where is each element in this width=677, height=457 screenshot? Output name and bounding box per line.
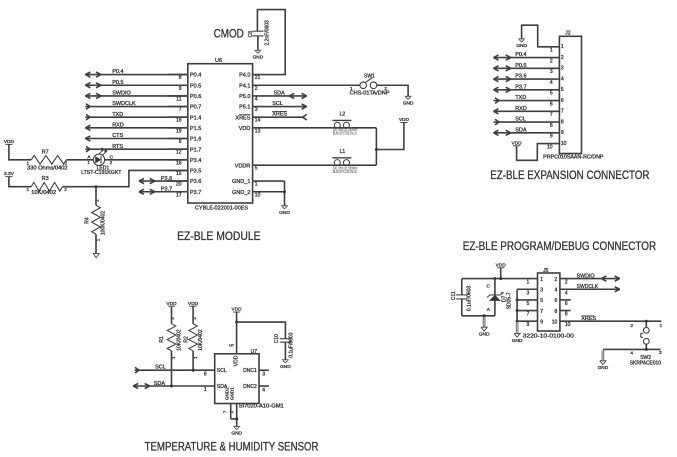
- resistor R4 100K/0402: [85, 187, 107, 254]
- svg-text:XRES: XRES: [272, 111, 287, 117]
- svg-text:SDA: SDA: [515, 127, 527, 133]
- svg-text:5: 5: [540, 298, 543, 304]
- svg-text:3: 3: [659, 350, 662, 356]
- svg-text:2: 2: [110, 160, 113, 165]
- wire VDD rail to J5 pin 1: [462, 278, 538, 280]
- U7 pin labels: [217, 355, 257, 400]
- wire net P3.6 stub: [139, 176, 188, 184]
- ground (J5 bus): [512, 323, 523, 344]
- U6 pin 13 VDD: [239, 126, 261, 134]
- svg-text:U7: U7: [251, 349, 258, 355]
- svg-text:P5.1: P5.1: [239, 105, 250, 111]
- connector J2 PRPC010SAAN-RC/DNP: [543, 31, 604, 161]
- wire net SDA from U6: [253, 90, 307, 98]
- svg-text:TXD: TXD: [112, 112, 123, 118]
- J5 pins 1/2: [527, 277, 568, 286]
- svg-text:2: 2: [64, 187, 67, 192]
- svg-text:SWDIO: SWDIO: [577, 273, 596, 279]
- wire net P0.5 to U6: [85, 80, 187, 88]
- svg-text:GND: GND: [512, 338, 523, 344]
- svg-text:3: 3: [255, 107, 258, 113]
- wire net TXD to U6: [85, 112, 187, 120]
- svg-text:P4.0: P4.0: [239, 73, 250, 79]
- power VDD (left): [4, 139, 15, 145]
- node GND junction: [283, 190, 286, 193]
- svg-text:P3.7: P3.7: [190, 190, 201, 196]
- ground (SW2): [598, 350, 609, 371]
- svg-text:16: 16: [176, 160, 182, 166]
- ground (U7): [231, 427, 242, 437]
- svg-text:4: 4: [630, 351, 633, 357]
- wire J2 pin 1 to ground: [522, 25, 560, 47]
- svg-text:3: 3: [262, 372, 265, 378]
- power VDD (R2): [188, 301, 199, 307]
- svg-text:10: 10: [547, 144, 553, 150]
- svg-text:GND: GND: [479, 332, 490, 338]
- svg-text:J5: J5: [543, 268, 549, 274]
- svg-text:20: 20: [176, 182, 182, 188]
- svg-text:P1.7: P1.7: [190, 147, 201, 153]
- svg-text:9: 9: [550, 134, 553, 140]
- svg-text:2.2nF/0603: 2.2nF/0603: [265, 20, 271, 46]
- node J5 bus junction: [516, 309, 519, 312]
- svg-text:8: 8: [565, 312, 568, 318]
- svg-text:P3.6: P3.6: [190, 179, 201, 185]
- svg-text:SCL: SCL: [272, 101, 283, 107]
- J5 pins 5/6: [527, 298, 568, 307]
- svg-text:RXD: RXD: [112, 122, 124, 128]
- title TEMPERATURE & HUMIDITY SENSOR: [145, 440, 319, 454]
- wire junction to VDD: [376, 123, 404, 150]
- wire SW2 bottom: [603, 348, 661, 351]
- svg-text:SCL: SCL: [515, 117, 526, 123]
- svg-text:4: 4: [262, 387, 265, 393]
- U6 pin 21 P4.0: [239, 73, 261, 81]
- svg-text:VDD: VDD: [239, 126, 251, 132]
- svg-text:8: 8: [179, 75, 182, 81]
- svg-text:10: 10: [255, 192, 261, 198]
- svg-text:2: 2: [550, 58, 553, 64]
- wire net P0.5 to J2 pin 3: [494, 63, 560, 71]
- svg-text:4: 4: [565, 290, 568, 296]
- U6 pin 3 P5.1: [239, 105, 258, 113]
- svg-text:9: 9: [179, 86, 182, 92]
- svg-text:VDD: VDD: [4, 139, 15, 145]
- svg-text:L2: L2: [340, 111, 346, 117]
- resistor R7 330 Ohms/0402: [26, 150, 67, 172]
- U6 pin 8 P0.4: [168, 73, 202, 81]
- svg-text:2: 2: [565, 280, 568, 286]
- node SW2 top junction: [645, 320, 648, 323]
- node R2/SCL junction: [192, 369, 195, 372]
- svg-text:2: 2: [561, 55, 564, 61]
- svg-text:DNC2: DNC2: [243, 384, 257, 390]
- svg-text:1: 1: [561, 44, 564, 50]
- J2 pin 6: [550, 98, 564, 108]
- svg-text:1: 1: [26, 161, 29, 166]
- svg-text:GND_2: GND_2: [232, 190, 250, 196]
- ground (C8): [253, 50, 264, 60]
- svg-text:1: 1: [204, 387, 207, 393]
- switch SW2 SKRPACE010: [630, 321, 663, 366]
- U6 pin 4 P5.0: [239, 94, 258, 102]
- svg-text:1: 1: [550, 48, 553, 54]
- svg-text:6: 6: [555, 298, 558, 304]
- svg-text:GND: GND: [598, 365, 609, 371]
- U6 pin 14 XRES: [235, 115, 260, 124]
- svg-text:7: 7: [527, 312, 530, 318]
- svg-text:P0.5: P0.5: [112, 80, 123, 86]
- ground (J2 pin1): [516, 39, 527, 49]
- svg-text:SDA: SDA: [154, 381, 166, 387]
- svg-text:R4: R4: [85, 217, 91, 224]
- svg-text:R3: R3: [42, 176, 49, 182]
- U6 pin 18 P1.4: [168, 115, 202, 123]
- svg-text:SKRPACE010: SKRPACE010: [630, 360, 661, 366]
- wire L1/L2 join: [351, 128, 376, 165]
- J5 pins 9/10: [527, 319, 571, 328]
- U6 pin 12 P1.7: [168, 147, 202, 155]
- svg-text:TEMPERATURE & HUMIDITY SENSOR: TEMPERATURE & HUMIDITY SENSOR: [145, 440, 319, 454]
- svg-text:10: 10: [565, 322, 571, 328]
- wire J5 pin 8 stub: [560, 310, 571, 312]
- svg-text:5: 5: [550, 91, 553, 97]
- diode D7 SD05-7 TVS: [487, 279, 513, 316]
- svg-text:C11: C11: [451, 291, 457, 300]
- svg-text:P1.5: P1.5: [190, 126, 201, 132]
- svg-text:2: 2: [192, 317, 197, 320]
- title EZ-BLE EXPANSION CONNECTOR: [490, 168, 650, 182]
- wire J5 pin 6 stub: [560, 299, 571, 301]
- svg-text:CYBLE-022001-00ES: CYBLE-022001-00ES: [195, 205, 248, 211]
- svg-text:18: 18: [176, 118, 182, 124]
- svg-text:4: 4: [255, 96, 258, 102]
- svg-text:13: 13: [255, 128, 261, 134]
- svg-text:P3.4: P3.4: [190, 158, 201, 164]
- svg-text:CHS-01TA/DNP: CHS-01TA/DNP: [350, 91, 391, 97]
- svg-text:6: 6: [550, 101, 553, 107]
- svg-text:3: 3: [540, 287, 543, 293]
- J2 pin 9: [550, 130, 564, 140]
- svg-text:2: 2: [65, 161, 68, 166]
- wire net SCL to J2 pin 8: [494, 117, 560, 125]
- wire net P3.7 to J2 pin 5: [494, 84, 560, 92]
- wire R3 to node: [62, 186, 96, 188]
- svg-text:P0.4: P0.4: [190, 73, 201, 79]
- U6 pin 9 P0.5: [168, 83, 202, 91]
- svg-text:21: 21: [255, 75, 261, 81]
- wire P4.0 to C8 loop: [253, 10, 286, 75]
- svg-text:CTS: CTS: [112, 133, 123, 139]
- wire U6 VDDR to L1: [253, 164, 333, 166]
- wire J5 gnd bus: [517, 289, 537, 322]
- wire U6 VDD to L2: [253, 127, 333, 129]
- power VDD (L1/L2): [399, 117, 410, 123]
- node J5 bus junction: [516, 298, 519, 301]
- wire net XRES from U6: [253, 111, 307, 120]
- wire LED1 to U6 P3.4: [104, 159, 188, 161]
- ground (R4, plain triangle): [93, 254, 99, 258]
- svg-text:5: 5: [561, 87, 564, 93]
- svg-text:GND: GND: [516, 43, 527, 49]
- J2 pin 5: [550, 87, 564, 97]
- diode LED1 LTST-C191KGKT: [81, 148, 121, 176]
- svg-text:2: 2: [95, 199, 100, 202]
- J2 pin 4: [550, 76, 564, 86]
- svg-text:P0.6: P0.6: [190, 94, 201, 100]
- resistor R2 10K/0402: [184, 306, 205, 370]
- svg-text:2: 2: [255, 86, 258, 92]
- wire net SDA to J2 pin 9: [494, 127, 560, 135]
- svg-text:SWDCLK: SWDCLK: [112, 101, 136, 107]
- svg-text:1: 1: [193, 356, 198, 359]
- svg-text:EZ-BLE MODULE: EZ-BLE MODULE: [177, 229, 260, 243]
- svg-text:1: 1: [660, 323, 663, 329]
- svg-text:15: 15: [176, 171, 182, 177]
- svg-text:SCL: SCL: [217, 368, 227, 374]
- wire net P3.7 stub: [139, 187, 188, 195]
- svg-text:SCL: SCL: [155, 364, 166, 370]
- svg-text:C: C: [487, 284, 491, 290]
- svg-text:LTST-C191KGKT: LTST-C191KGKT: [81, 170, 121, 176]
- node R3/R4 junction: [95, 185, 98, 188]
- svg-text:SDA: SDA: [274, 90, 286, 96]
- svg-text:GND: GND: [231, 431, 242, 437]
- svg-text:P3.5: P3.5: [190, 169, 201, 175]
- svg-text:TXD: TXD: [515, 95, 526, 101]
- svg-text:2: 2: [229, 410, 234, 413]
- node CMOD: [214, 26, 244, 40]
- U6 pin 20 P3.6: [168, 179, 202, 187]
- inductor L1 BLM21PC331SN1G: [332, 149, 357, 174]
- svg-text:1: 1: [171, 356, 176, 359]
- svg-text:6: 6: [179, 139, 182, 145]
- J5 pins 3/4: [527, 287, 568, 296]
- title EZ-BLE MODULE: [177, 229, 260, 243]
- svg-text:SWDIO: SWDIO: [112, 91, 131, 97]
- wire net SDA to U7 pin 1: [133, 381, 215, 393]
- svg-text:11: 11: [176, 96, 181, 102]
- capacitor C11 0.1uF/0603: [451, 279, 473, 316]
- wire net SWDIO from J5 pin 2: [560, 273, 620, 281]
- wire net CTS to U6: [85, 133, 187, 141]
- svg-text:RTS: RTS: [112, 144, 123, 150]
- svg-text:6: 6: [561, 98, 564, 104]
- svg-text:VDD: VDD: [512, 140, 523, 146]
- svg-text:4: 4: [561, 76, 564, 82]
- svg-text:R2: R2: [184, 336, 190, 343]
- svg-text:5: 5: [527, 301, 530, 307]
- svg-text:8: 8: [550, 123, 553, 129]
- svg-text:P3.6: P3.6: [515, 74, 526, 80]
- svg-text:7: 7: [179, 107, 182, 113]
- svg-text:J2: J2: [565, 31, 571, 37]
- svg-text:SI7020-A10-GM1: SI7020-A10-GM1: [239, 404, 284, 410]
- svg-text:8: 8: [561, 119, 564, 125]
- svg-text:17: 17: [176, 192, 182, 198]
- wire U7 GND pins to ground: [222, 404, 236, 427]
- svg-text:1: 1: [87, 160, 90, 165]
- svg-text:9: 9: [540, 319, 543, 325]
- wire net SWDCLK to U6: [85, 101, 187, 109]
- svg-text:R1: R1: [159, 336, 165, 343]
- svg-text:CMOD: CMOD: [214, 26, 244, 40]
- svg-text:10: 10: [552, 319, 558, 325]
- U6 pin 11 P0.6: [168, 94, 202, 102]
- svg-text:9: 9: [527, 322, 530, 328]
- node VDD drop junction: [499, 277, 502, 280]
- svg-text:P3.7: P3.7: [515, 84, 526, 90]
- svg-text:SWDCLK: SWDCLK: [577, 284, 599, 290]
- wire net SCL to U7 pin 6: [135, 364, 215, 377]
- svg-text:BLM21PC331SN1G: BLM21PC331SN1G: [333, 130, 357, 135]
- svg-text:BLM21PC331SN1G: BLM21PC331SN1G: [333, 169, 357, 174]
- svg-text:8: 8: [555, 309, 558, 315]
- wire C11 ground rail: [462, 315, 495, 317]
- wire net P0.4 to J2 pin 2: [494, 52, 560, 60]
- power 3.3V: [4, 171, 15, 177]
- svg-text:100K/0402: 100K/0402: [101, 211, 107, 235]
- node D7 top junction: [493, 277, 496, 280]
- svg-text:10: 10: [561, 141, 567, 147]
- svg-text:2: 2: [170, 317, 175, 320]
- J2 pin 10: [547, 141, 567, 151]
- svg-text:P3.7: P3.7: [161, 187, 172, 193]
- svg-text:P3.6: P3.6: [161, 176, 172, 182]
- wire U7 pin 4 stub: [259, 386, 269, 393]
- svg-text:P1.4: P1.4: [190, 115, 201, 121]
- wire U7 pin 5: [230, 322, 237, 354]
- svg-text:7: 7: [222, 410, 227, 413]
- svg-text:19: 19: [176, 128, 182, 134]
- svg-text:7: 7: [550, 112, 553, 118]
- resistor R3 10K/0402: [26, 176, 67, 196]
- svg-text:C8: C8: [248, 31, 254, 38]
- svg-text:3: 3: [550, 69, 553, 75]
- svg-text:4: 4: [550, 80, 553, 86]
- svg-text:1: 1: [26, 187, 29, 192]
- node U7 GND junction: [235, 417, 238, 420]
- U6 pin 16 P3.4: [168, 158, 202, 166]
- power VDD (J2): [512, 140, 523, 146]
- wire U7 pin 3 stub: [259, 370, 269, 377]
- svg-text:6: 6: [565, 301, 568, 307]
- wire net RXD to J2 pin 7: [494, 106, 560, 114]
- svg-text:P4.1: P4.1: [239, 83, 250, 89]
- svg-text:3: 3: [561, 66, 564, 72]
- svg-text:EZ-BLE EXPANSION CONNECTOR: EZ-BLE EXPANSION CONNECTOR: [490, 168, 650, 182]
- svg-text:0.1uF/0603: 0.1uF/0603: [467, 286, 473, 312]
- svg-text:2: 2: [630, 323, 633, 329]
- svg-text:GND: GND: [279, 210, 290, 216]
- wire VDD to R7: [9, 144, 31, 159]
- svg-text:10K/0402: 10K/0402: [177, 329, 183, 351]
- svg-text:P5.0: P5.0: [239, 94, 250, 100]
- svg-text:0.1uF/0603: 0.1uF/0603: [288, 332, 294, 358]
- node L1/L2/VDD junction: [375, 148, 378, 151]
- node C11 gnd junction: [483, 314, 486, 317]
- svg-text:P0.4: P0.4: [112, 69, 123, 75]
- svg-text:1: 1: [540, 277, 543, 283]
- node R1/SDA junction: [170, 385, 173, 388]
- wire U6 GND_1/GND_2 to ground: [253, 181, 285, 206]
- ground (C11 rail): [479, 317, 490, 338]
- svg-text:10K/0402: 10K/0402: [31, 190, 56, 196]
- U6 pin 5 VDDR: [235, 163, 258, 171]
- power VDD (U7): [232, 307, 243, 323]
- wire net TXD to J2 pin 6: [494, 95, 560, 103]
- svg-text:VDDR: VDDR: [235, 163, 251, 169]
- wire R7 to LED1: [67, 159, 94, 161]
- wire net P3.6 to J2 pin 4: [494, 74, 560, 82]
- svg-text:5: 5: [255, 166, 258, 172]
- wire net RXD to U6: [85, 122, 187, 130]
- svg-text:SW1: SW1: [364, 73, 375, 79]
- wire U6 P4.1 to SW1: [253, 84, 360, 86]
- svg-text:VDD: VDD: [496, 262, 507, 268]
- svg-text:5: 5: [230, 344, 236, 347]
- U6 pin 15 P3.5: [168, 169, 202, 177]
- svg-text:12: 12: [176, 150, 182, 156]
- title EZ-BLE PROGRAM/DEBUG CONNECTOR: [463, 239, 657, 253]
- U6 pin 17 P3.7: [168, 190, 202, 198]
- switch SW1 CHS-01TA/DNP: [350, 73, 391, 96]
- svg-text:VDD: VDD: [399, 117, 410, 123]
- U6 pin 19 P1.5: [168, 126, 202, 134]
- J2 pin 3: [550, 66, 564, 76]
- wire node to U6 P3.5: [96, 170, 188, 186]
- connector J5 3220-10-0100-00: [523, 268, 574, 340]
- svg-text:VDD: VDD: [166, 301, 177, 307]
- svg-text:R7: R7: [42, 150, 49, 156]
- svg-text:P0.5: P0.5: [515, 63, 526, 69]
- J5 pins 7/8: [527, 309, 568, 318]
- wire 3.3V to R3: [9, 177, 31, 187]
- wire SW1 to ground: [377, 85, 408, 96]
- wire net RTS to U6: [85, 144, 187, 152]
- svg-text:GND: GND: [280, 364, 291, 370]
- U6 pin 7 P0.7: [168, 105, 202, 113]
- wire J2 pin 10 to VDD: [517, 144, 560, 161]
- svg-text:1: 1: [527, 280, 530, 286]
- svg-text:330 Ohms/0402: 330 Ohms/0402: [27, 166, 68, 172]
- svg-text:6: 6: [204, 372, 207, 378]
- node J5 bus junction: [516, 320, 519, 323]
- wire net SWDIO to U6: [85, 91, 187, 99]
- svg-text:3.3V: 3.3V: [4, 171, 15, 177]
- U6 pin 2 P4.1: [239, 83, 258, 91]
- inductor L2 BLM21PC331SN1G: [332, 111, 357, 135]
- capacitor C10 0.1uF/0603: [274, 332, 294, 360]
- svg-text:P1.6: P1.6: [190, 137, 201, 143]
- svg-text:7: 7: [561, 109, 564, 115]
- ground (SW1): [403, 96, 414, 106]
- svg-text:EZ-BLE PROGRAM/DEBUG CONNECTOR: EZ-BLE PROGRAM/DEBUG CONNECTOR: [463, 239, 657, 253]
- svg-text:10K/0402: 10K/0402: [198, 329, 204, 351]
- capacitor C8 2.2nF/0603: [248, 20, 271, 46]
- svg-text:GND: GND: [253, 55, 264, 61]
- J2 pin 2: [550, 55, 564, 65]
- IC U6 EZ-BLE module CYBLE-022001-00ES: [188, 58, 253, 212]
- ground (U6): [279, 206, 290, 216]
- svg-text:3: 3: [527, 290, 530, 296]
- svg-text:P0.5: P0.5: [190, 83, 201, 89]
- J2 pin 8: [550, 119, 564, 129]
- wire net XRES from J5 pin 10 to SW2: [560, 316, 662, 322]
- wire net SCL from U6: [253, 101, 307, 109]
- U6 pin 10 GND_2: [232, 190, 261, 198]
- svg-text:1: 1: [255, 182, 258, 188]
